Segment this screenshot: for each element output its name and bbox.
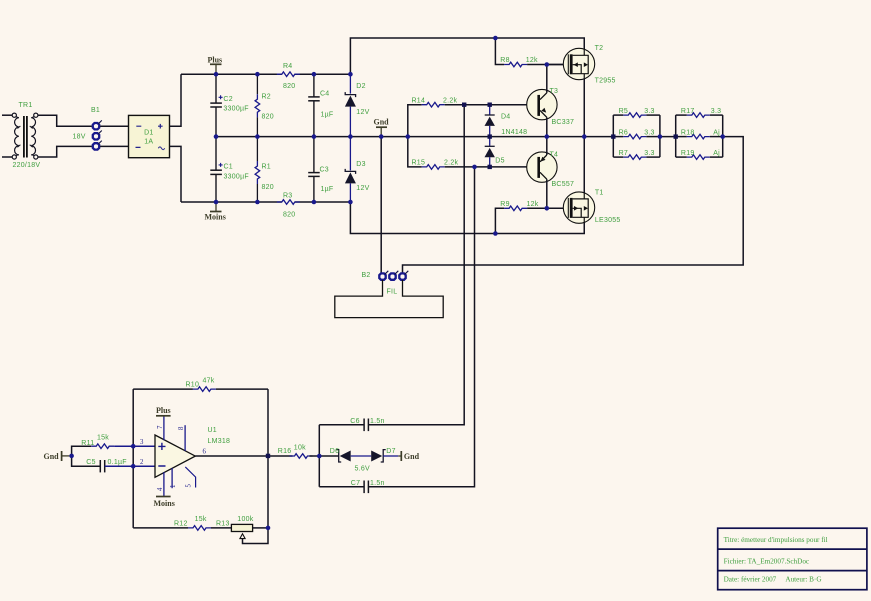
capacitor C6 [364,419,368,432]
potentiometer R13 [231,524,252,538]
pin 1 stub of U1 [171,468,173,488]
zener diode D3 [345,137,356,202]
wire R11 to pin3 node [114,445,155,447]
svg-text:Plus: Plus [156,406,171,415]
svg-text:BC557: BC557 [552,181,575,188]
op-amp U1 feedback left vertical [132,389,134,528]
junction dots top rail [214,36,498,77]
wire R8 branch from top rail [495,38,504,65]
svg-text:B1: B1 [91,107,100,114]
svg-text:Fichier: TA_Em2007.SchDoc: Fichier: TA_Em2007.SchDoc [724,557,810,565]
svg-text:LM318: LM318 [208,438,231,445]
resistor R19 [676,155,723,160]
wire R10 row [133,388,193,390]
svg-text:1N4148: 1N4148 [501,129,527,136]
svg-text:Plus: Plus [208,55,223,64]
wire R17 group left bus [675,115,677,157]
wire D1 + output up to Plus rail [170,74,182,126]
diode D5 1N4148 [485,137,495,167]
pin 5 stub of U1 [185,467,195,488]
junction square dots mid rail [611,134,678,138]
svg-text:Auteur: B·G: Auteur: B·G [785,576,821,584]
wire T4 collector to R9 node [546,179,548,208]
wire R16 to D6 node [310,455,339,457]
bridge rectifier D1 [129,115,170,157]
wire R8 node to T2 gate [547,64,564,66]
svg-text:C4: C4 [320,91,329,98]
pin 8 stub of U1 [184,425,186,451]
capacitor C4 [308,74,320,136]
wire between resistor groups [660,136,676,138]
wire R12 row [133,527,188,529]
svg-text:3.3: 3.3 [644,129,654,136]
transistor T2 T2955 MOSFET [563,48,594,79]
svg-text:1µF: 1µF [321,112,334,119]
svg-text:R3: R3 [283,193,292,200]
svg-text:T3: T3 [550,88,559,95]
svg-text:TR1: TR1 [19,102,33,109]
svg-text:D5: D5 [495,158,504,165]
power port Moins [205,202,226,222]
wire R17 group right bus [722,115,724,157]
svg-text:R1: R1 [262,163,271,170]
svg-text:R6: R6 [619,129,628,136]
wire TR1 secondary top to B1 [38,115,92,126]
svg-text:3300µF: 3300µF [223,106,248,113]
svg-text:C3: C3 [320,166,329,173]
svg-text:3.3: 3.3 [644,108,654,115]
svg-text:8: 8 [178,426,185,430]
wire Gnd junction down to B2 pin1 [380,137,382,274]
svg-text:R9: R9 [500,201,509,208]
svg-text:R15: R15 [412,160,426,167]
svg-text:12k: 12k [527,201,539,208]
power port Gnd D7 [398,451,419,461]
svg-text:R8: R8 [500,57,509,64]
wire R14 to T3 base [445,104,538,106]
resistor R12 [188,526,211,531]
resistor R6 [613,134,660,139]
svg-text:R12: R12 [174,521,188,528]
diode D4 1N4148 [485,105,495,137]
pin 4 of U1 [163,472,165,496]
svg-text:1A: 1A [144,139,153,146]
svg-text:2: 2 [140,459,144,466]
svg-text:Moins: Moins [154,499,175,508]
wire R13 to output vertical [253,527,268,529]
svg-text:Gnd: Gnd [374,117,390,126]
power port Gnd mid [374,117,390,136]
connector B1 [93,120,102,149]
wire Plus top rail [181,73,282,75]
svg-text:R4: R4 [283,63,292,70]
junction square dot output [266,454,270,458]
wire R14 branch from mid rail [408,105,422,137]
svg-text:R16: R16 [278,448,292,455]
svg-text:T2: T2 [595,45,604,52]
junction dots bottom rail [214,200,498,236]
wire T4 emitter to mid rail [546,137,548,155]
svg-text:D6: D6 [330,448,339,455]
resistor R7 [613,155,660,160]
resistor R8 [504,62,527,67]
wire mid rail [216,136,613,138]
svg-text:220/18V: 220/18V [13,162,41,169]
svg-text:R10: R10 [186,382,200,389]
wire long vertical node to C7 row [368,167,474,487]
capacitor C5 [100,460,104,472]
resistor R5 [613,113,660,118]
wire output loop to B2 pin3 [403,137,744,274]
svg-text:6: 6 [203,449,207,456]
zener diode D6 [336,450,371,462]
svg-text:1: 1 [170,485,177,488]
svg-text:T4: T4 [550,151,559,158]
svg-text:4: 4 [157,487,164,491]
capacitor C3 [308,137,320,202]
wire long vertical node to C6 row [368,105,464,425]
op-amp U1 [155,435,195,477]
svg-text:15k: 15k [97,435,109,442]
wire U1 output pin 6 [195,455,292,457]
svg-text:R19: R19 [681,150,695,157]
wire R15 branch from mid rail [408,137,422,167]
resistor R18 [676,134,723,139]
svg-text:100k: 100k [237,516,253,523]
svg-text:Date: février 2007: Date: février 2007 [724,576,777,584]
svg-text:C7: C7 [351,480,360,487]
connector B2 [379,271,408,280]
svg-text:12V: 12V [356,185,369,192]
svg-text:D3: D3 [356,161,365,168]
svg-text:Moins: Moins [205,213,226,222]
wire drain column T2 to T1 [583,79,585,193]
svg-text:D4: D4 [501,114,510,121]
svg-text:3.3: 3.3 [711,108,721,115]
svg-text:Gnd: Gnd [44,452,60,461]
wire D1 ~ output down to Moins rail [170,146,182,202]
wire B1 to D1 pin top [100,125,128,127]
capacitor C1 [210,137,222,202]
resistor R15 [422,165,445,170]
svg-text:FIL: FIL [387,289,398,296]
svg-text:3300µF: 3300µF [224,173,249,180]
svg-text:3.3: 3.3 [644,150,654,157]
wire T3 emitter to mid rail [546,117,548,136]
wire R15 to T4 base [445,166,538,168]
wire T3 collector to R8 node [546,65,548,93]
svg-text:T1: T1 [595,190,604,197]
power port Moins U1 [154,497,175,508]
svg-text:R2: R2 [262,94,271,101]
svg-text:5: 5 [185,484,192,488]
wire big loop bottom (Moins feed) [350,202,584,234]
svg-text:R17: R17 [681,108,695,115]
title block frame [718,528,867,590]
capacitor C2 [210,74,222,136]
resistor R16 [290,454,313,459]
transistor T3 BC337 [527,89,557,119]
svg-text:Titre: émetteur d'impulsions p: Titre: émetteur d'impulsions pour fil [724,536,828,544]
wire R9 node to T1 gate [547,207,564,209]
resistor R3 [277,200,300,205]
wire C5 to pin2 node [105,465,155,467]
svg-text:15k: 15k [195,516,207,523]
wire TR1 secondary bottom to B1 [38,146,92,157]
wire Gnd node to C5 row [72,456,101,466]
svg-text:18V: 18V [73,134,86,141]
svg-text:2.2k: 2.2k [444,160,458,167]
wire R9 branch from bottom rail [495,208,504,233]
pin 7 of U1 [163,416,165,440]
zener diode D2 [345,74,356,136]
svg-text:B2: B2 [362,272,371,279]
resistor R4 [277,72,300,77]
resistor R14 [422,102,445,107]
junction square dots D4 D5 column [462,103,492,170]
svg-text:R11: R11 [81,440,94,447]
resistor R9 [504,206,527,211]
svg-text:U1: U1 [208,427,217,434]
svg-text:D1: D1 [144,129,153,136]
svg-text:C5: C5 [86,459,95,466]
transistor T1 LE3055 MOSFET [563,192,594,223]
zener diode D7 [371,450,398,462]
svg-text:820: 820 [262,184,274,191]
svg-text:820: 820 [262,114,274,121]
transistor T4 BC557 [527,152,557,182]
svg-text:2.2k: 2.2k [443,97,457,104]
resistor R17 [676,113,723,118]
svg-text:12k: 12k [526,57,538,64]
resistor R10 [193,387,216,392]
wire C6 branch [318,425,320,487]
power port Gnd opamp [44,451,70,461]
svg-text:R14: R14 [412,97,426,104]
connector B2 shell box [335,280,443,318]
svg-text:1µF: 1µF [321,186,334,193]
wire R5 group right bus [659,115,661,157]
svg-text:D2: D2 [356,83,365,90]
svg-text:Aj: Aj [713,150,720,157]
wire C7 row left [319,486,364,488]
svg-text:R7: R7 [619,150,628,157]
svg-text:C2: C2 [223,96,232,103]
junction dots T3 T4 rows [472,62,549,210]
svg-text:12V: 12V [356,109,369,116]
power port Plus U1 [156,406,171,416]
svg-text:820: 820 [283,212,295,219]
svg-text:C1: C1 [224,164,233,171]
svg-text:1.5n: 1.5n [370,480,385,487]
svg-text:R5: R5 [619,108,628,115]
svg-text:5.6V: 5.6V [355,466,370,473]
junction dots mid rail [214,134,725,139]
svg-text:Gnd: Gnd [404,452,420,461]
svg-text:C6: C6 [350,418,359,425]
wire big loop top (Plus feed) [350,38,584,74]
resistor R2 [255,74,260,136]
svg-text:1.5n: 1.5n [370,418,385,425]
wire Moins bottom rail [181,201,282,203]
svg-text:LE3055: LE3055 [595,217,621,224]
svg-text:BC337: BC337 [552,119,575,126]
svg-text:3: 3 [140,439,144,446]
svg-text:R13: R13 [216,521,230,528]
junction dots op-amp [69,444,321,530]
transformer TR1 [2,113,38,159]
svg-text:7: 7 [157,425,164,429]
power port Plus [208,55,223,74]
svg-text:47k: 47k [203,378,215,385]
svg-text:820: 820 [283,83,295,90]
svg-text:R18: R18 [681,129,695,136]
wire C6 row left [319,424,364,426]
svg-text:T2955: T2955 [595,78,616,85]
wire Gnd node to R11 row [72,446,92,456]
capacitor C7 [364,481,368,494]
svg-text:0.1µF: 0.1µF [108,459,127,466]
resistor R1 [255,137,260,202]
wire mid rail to R5 group [612,115,614,157]
op-amp U1 output vertical [243,389,269,543]
svg-text:D7: D7 [386,448,395,455]
resistor R11 [91,444,114,449]
wire B1 to D1 pin bottom [100,145,128,147]
svg-text:Aj: Aj [713,129,720,136]
svg-text:10k: 10k [294,444,306,451]
